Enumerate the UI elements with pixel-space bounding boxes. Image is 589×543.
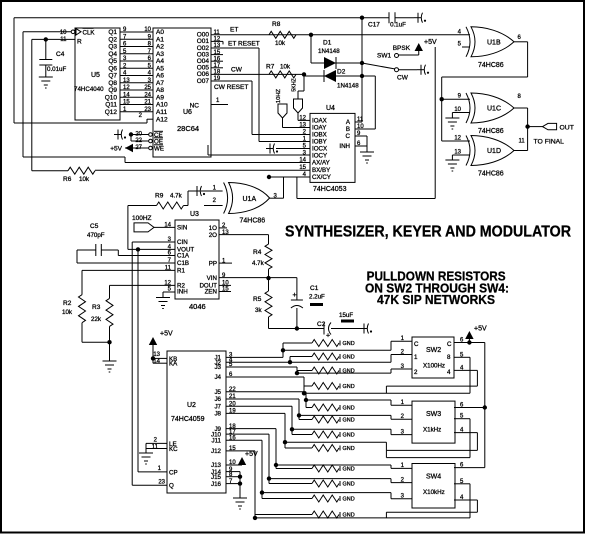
svg-text:Q2: Q2 bbox=[108, 36, 117, 43]
svg-text:C17: C17 bbox=[368, 22, 380, 29]
svg-text:GND: GND bbox=[343, 406, 355, 412]
svg-text:74HC86: 74HC86 bbox=[478, 128, 504, 135]
svg-text:IOBY: IOBY bbox=[312, 139, 327, 146]
svg-text:+: + bbox=[326, 333, 330, 340]
svg-text:+5V: +5V bbox=[160, 331, 173, 338]
svg-text:A9: A9 bbox=[156, 94, 164, 101]
svg-text:Q5: Q5 bbox=[108, 58, 117, 65]
svg-text:IOCX: IOCX bbox=[312, 146, 327, 153]
svg-text:U5: U5 bbox=[91, 72, 100, 79]
svg-text:24: 24 bbox=[144, 92, 151, 98]
svg-text:R6: R6 bbox=[63, 176, 72, 183]
svg-text:GND: GND bbox=[343, 341, 355, 347]
svg-text:D2: D2 bbox=[337, 69, 346, 76]
svg-text:U6: U6 bbox=[183, 109, 192, 116]
svg-text:C: C bbox=[414, 341, 419, 348]
svg-text:Q10: Q10 bbox=[105, 94, 118, 101]
svg-text:SW4: SW4 bbox=[426, 474, 441, 481]
svg-text:J4: J4 bbox=[214, 374, 221, 381]
svg-text:CW RESET: CW RESET bbox=[214, 84, 248, 91]
svg-text:5KHZ: 5KHZ bbox=[292, 78, 298, 91]
svg-text:C: C bbox=[447, 341, 452, 348]
svg-text:B: B bbox=[346, 126, 350, 133]
svg-text:15: 15 bbox=[123, 100, 130, 106]
svg-text:R9: R9 bbox=[155, 193, 164, 200]
svg-text:+5V: +5V bbox=[110, 146, 122, 153]
svg-text:J12: J12 bbox=[211, 448, 222, 455]
svg-text:1N4148: 1N4148 bbox=[318, 48, 340, 55]
svg-text:GND: GND bbox=[343, 467, 355, 473]
svg-text:C1B: C1B bbox=[177, 260, 189, 267]
svg-text:U3: U3 bbox=[190, 211, 199, 218]
svg-text:4046: 4046 bbox=[189, 302, 206, 311]
svg-text:Q7: Q7 bbox=[108, 73, 117, 80]
svg-text:SIN: SIN bbox=[177, 225, 187, 232]
svg-text:PP: PP bbox=[209, 260, 217, 267]
svg-text:GND: GND bbox=[343, 418, 355, 424]
svg-text:4: 4 bbox=[447, 369, 451, 376]
svg-text:A2: A2 bbox=[156, 44, 164, 51]
svg-text:4.7k: 4.7k bbox=[170, 193, 183, 200]
svg-text:CLK: CLK bbox=[83, 30, 96, 37]
svg-text:Q6: Q6 bbox=[108, 65, 117, 72]
svg-text:Q9: Q9 bbox=[108, 87, 117, 94]
svg-text:INH: INH bbox=[339, 143, 350, 150]
svg-text:GND: GND bbox=[343, 482, 355, 488]
svg-text:A5: A5 bbox=[156, 65, 164, 72]
svg-text:470pF: 470pF bbox=[87, 232, 105, 239]
svg-text:R: R bbox=[77, 39, 82, 46]
svg-text:14: 14 bbox=[123, 92, 130, 98]
svg-text:A3: A3 bbox=[156, 51, 164, 58]
svg-text:R1: R1 bbox=[177, 268, 185, 275]
svg-text:ET RESET: ET RESET bbox=[228, 41, 260, 48]
svg-text:U4: U4 bbox=[326, 105, 335, 112]
svg-text:8: 8 bbox=[447, 354, 451, 361]
svg-text:OUT: OUT bbox=[560, 124, 574, 131]
svg-text:R2: R2 bbox=[63, 300, 72, 307]
svg-text:Q: Q bbox=[169, 483, 174, 490]
svg-text:Q1: Q1 bbox=[108, 29, 117, 36]
svg-text:A0: A0 bbox=[156, 29, 164, 36]
svg-text:CX/CY: CX/CY bbox=[312, 174, 331, 181]
svg-text:J3: J3 bbox=[214, 364, 221, 371]
svg-text:GND: GND bbox=[343, 497, 355, 503]
svg-text:13: 13 bbox=[123, 78, 130, 84]
svg-text:74HC86: 74HC86 bbox=[478, 171, 504, 178]
svg-text:C: C bbox=[346, 133, 351, 140]
svg-text:R7: R7 bbox=[266, 64, 275, 71]
svg-text:A7: A7 bbox=[156, 80, 164, 87]
svg-text:R3: R3 bbox=[92, 304, 101, 311]
svg-text:KC: KC bbox=[169, 446, 178, 453]
svg-text:Q8: Q8 bbox=[108, 80, 117, 87]
svg-text:R4: R4 bbox=[253, 249, 262, 256]
svg-text:0.1uF: 0.1uF bbox=[390, 22, 406, 29]
svg-text:SW3: SW3 bbox=[426, 411, 441, 418]
svg-text:47K SIP NETWORKS: 47K SIP NETWORKS bbox=[377, 292, 495, 307]
svg-text:Q12: Q12 bbox=[105, 109, 118, 116]
svg-text:VIN: VIN bbox=[207, 275, 217, 282]
svg-text:CW: CW bbox=[231, 67, 243, 74]
svg-text:C5: C5 bbox=[90, 223, 99, 230]
svg-text:2.2uF: 2.2uF bbox=[309, 294, 325, 301]
svg-text:Q11: Q11 bbox=[105, 102, 117, 109]
svg-text:11: 11 bbox=[519, 139, 526, 145]
svg-text:Q4: Q4 bbox=[108, 51, 117, 58]
svg-text:AX/AY: AX/AY bbox=[312, 160, 330, 167]
svg-text:1N4148: 1N4148 bbox=[337, 83, 359, 90]
svg-text:SW2: SW2 bbox=[426, 347, 441, 354]
svg-text:+: + bbox=[293, 292, 297, 299]
svg-text:23: 23 bbox=[144, 107, 151, 113]
svg-text:CW: CW bbox=[397, 75, 409, 82]
svg-text:BX/BY: BX/BY bbox=[312, 167, 330, 174]
svg-text:74HC4059: 74HC4059 bbox=[171, 416, 205, 423]
svg-text:SYNTHESIZER, KEYER AND MODULA: SYNTHESIZER, KEYER AND MODULATOR bbox=[285, 224, 571, 241]
svg-text:GND: GND bbox=[343, 433, 355, 439]
svg-text:C4: C4 bbox=[56, 51, 65, 58]
svg-text:+5V: +5V bbox=[424, 39, 437, 46]
svg-text:ET: ET bbox=[230, 27, 238, 34]
svg-text:25: 25 bbox=[144, 85, 151, 91]
svg-text:O07: O07 bbox=[197, 78, 210, 85]
svg-text:D1: D1 bbox=[323, 40, 332, 47]
svg-text:R8: R8 bbox=[272, 21, 281, 28]
svg-text:2: 2 bbox=[414, 369, 418, 376]
svg-text:10: 10 bbox=[60, 30, 67, 36]
svg-text:A1: A1 bbox=[156, 36, 164, 43]
svg-text:74HC4053: 74HC4053 bbox=[313, 186, 347, 193]
svg-text:R5: R5 bbox=[253, 296, 262, 303]
svg-text:10k: 10k bbox=[79, 176, 90, 183]
svg-text:A12: A12 bbox=[156, 116, 168, 123]
svg-text:GND: GND bbox=[343, 384, 355, 390]
svg-text:J8: J8 bbox=[214, 411, 221, 418]
svg-text:100HZ: 100HZ bbox=[132, 215, 152, 222]
svg-text:12: 12 bbox=[123, 85, 130, 91]
svg-text:1: 1 bbox=[414, 354, 418, 361]
svg-text:15uF: 15uF bbox=[339, 312, 353, 319]
svg-text:21: 21 bbox=[144, 100, 151, 106]
svg-text:11: 11 bbox=[60, 37, 67, 43]
svg-text:0.01uF: 0.01uF bbox=[47, 66, 66, 73]
svg-text:WE: WE bbox=[154, 146, 164, 153]
svg-text:J16: J16 bbox=[211, 481, 222, 488]
svg-text:GND: GND bbox=[343, 446, 355, 452]
svg-text:28C64: 28C64 bbox=[177, 124, 199, 133]
svg-text:IOAX: IOAX bbox=[312, 118, 327, 125]
svg-text:U1A: U1A bbox=[243, 196, 257, 203]
svg-text:IOAY: IOAY bbox=[312, 125, 326, 132]
svg-text:A11: A11 bbox=[156, 109, 167, 116]
svg-text:U2: U2 bbox=[187, 402, 196, 409]
svg-text:J11: J11 bbox=[211, 438, 221, 445]
svg-text:74HC86: 74HC86 bbox=[478, 62, 504, 69]
svg-text:10: 10 bbox=[144, 27, 151, 33]
svg-text:CIN: CIN bbox=[177, 239, 188, 246]
svg-text:CP: CP bbox=[169, 469, 178, 476]
svg-text:C1: C1 bbox=[310, 285, 319, 292]
svg-text:J7: J7 bbox=[214, 403, 221, 410]
svg-text:22k: 22k bbox=[91, 316, 102, 323]
svg-text:10k: 10k bbox=[280, 64, 291, 71]
svg-text:IOCY: IOCY bbox=[312, 153, 327, 160]
svg-text:10HZ: 10HZ bbox=[276, 88, 282, 103]
svg-text:10k: 10k bbox=[62, 309, 73, 316]
svg-text:74HC86: 74HC86 bbox=[240, 218, 266, 225]
svg-text:74HC4040: 74HC4040 bbox=[74, 86, 104, 93]
svg-text:4.7k: 4.7k bbox=[252, 260, 265, 267]
svg-text:ZEN: ZEN bbox=[205, 289, 217, 296]
svg-text:A8: A8 bbox=[156, 87, 164, 94]
svg-text:23: 23 bbox=[158, 479, 165, 485]
svg-text:IOBX: IOBX bbox=[312, 132, 327, 139]
svg-text:U1D: U1D bbox=[487, 148, 501, 155]
svg-text:X10kHz: X10kHz bbox=[423, 489, 445, 496]
svg-text:INH: INH bbox=[177, 289, 188, 296]
svg-text:A10: A10 bbox=[156, 102, 168, 109]
svg-text:2O: 2O bbox=[209, 232, 217, 239]
svg-text:+5V: +5V bbox=[245, 451, 258, 458]
svg-text:NC: NC bbox=[190, 103, 200, 110]
svg-text:TO FINAL: TO FINAL bbox=[534, 139, 565, 146]
svg-text:GND: GND bbox=[343, 355, 355, 361]
svg-text:KA: KA bbox=[169, 361, 178, 368]
svg-text:+5V: +5V bbox=[474, 326, 487, 333]
svg-text:Q3: Q3 bbox=[108, 44, 117, 51]
svg-text:A4: A4 bbox=[156, 58, 164, 65]
svg-text:3k: 3k bbox=[255, 307, 262, 314]
svg-text:10k: 10k bbox=[275, 40, 286, 47]
svg-text:SW1: SW1 bbox=[377, 53, 391, 60]
svg-text:BPSK: BPSK bbox=[393, 45, 411, 52]
svg-text:U1B: U1B bbox=[487, 39, 501, 46]
svg-text:X1kHz: X1kHz bbox=[423, 427, 441, 434]
svg-text:C1A: C1A bbox=[177, 253, 190, 260]
svg-text:U1C: U1C bbox=[487, 106, 501, 113]
svg-text:A6: A6 bbox=[156, 73, 164, 80]
svg-text:J6: J6 bbox=[214, 396, 221, 403]
svg-text:X100Hz: X100Hz bbox=[423, 363, 445, 370]
svg-text:J5: J5 bbox=[214, 389, 221, 396]
svg-text:11: 11 bbox=[152, 445, 159, 451]
